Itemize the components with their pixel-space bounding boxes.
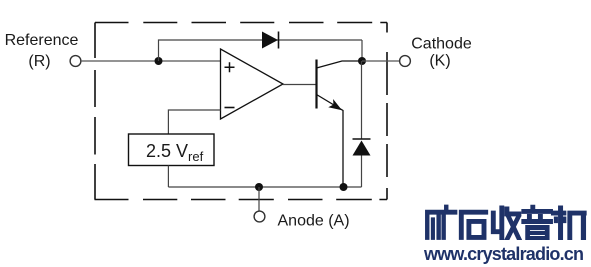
wire top rail down to cathode node bbox=[361, 40, 363, 61]
IC dashed boundary box bbox=[95, 23, 388, 200]
wire op-amp output to base bbox=[283, 84, 317, 86]
terminal K bbox=[400, 56, 411, 67]
wire Vref box to bottom rail bbox=[167, 166, 169, 188]
char 收 bbox=[491, 206, 521, 240]
node emitter junction bbox=[340, 183, 348, 191]
diode D2 (anode-cathode protection) bbox=[353, 138, 371, 140]
char 矿 bbox=[425, 205, 457, 240]
wire cathode node to terminal K bbox=[362, 60, 400, 62]
wire cathode node down to diode D2 bbox=[361, 61, 363, 139]
svg-text:Cathode: Cathode bbox=[411, 36, 472, 53]
wire anode stub bbox=[258, 187, 260, 212]
svg-text:www.crystalradio.cn: www.crystalradio.cn bbox=[423, 244, 584, 264]
node anode junction bbox=[255, 183, 263, 191]
wire bottom rail bbox=[168, 186, 361, 188]
svg-text:(R): (R) bbox=[28, 53, 50, 70]
terminal A bbox=[254, 211, 265, 222]
node R junction bbox=[155, 57, 163, 65]
svg-text:Anode (A): Anode (A) bbox=[278, 213, 350, 230]
diode D1 on top rail bbox=[262, 32, 278, 49]
wire junction up to top rail bbox=[159, 40, 363, 61]
wire diode D2 to bottom rail bbox=[361, 156, 363, 188]
char 音 bbox=[522, 205, 553, 240]
transistor Q1 bbox=[315, 60, 317, 109]
wire inverting input bbox=[168, 110, 220, 134]
watermark logo 矿石收音机 bbox=[425, 205, 586, 240]
op-amp U1 bbox=[221, 49, 284, 119]
char 机 bbox=[551, 206, 586, 240]
node cathode junction bbox=[358, 57, 366, 65]
wire R to op-amp + input bbox=[81, 60, 221, 62]
char 石 bbox=[459, 210, 488, 239]
terminal R bbox=[70, 56, 81, 67]
reference source box 2.5 Vref bbox=[129, 134, 215, 166]
svg-text:(K): (K) bbox=[429, 53, 450, 70]
svg-text:Reference: Reference bbox=[5, 32, 79, 49]
